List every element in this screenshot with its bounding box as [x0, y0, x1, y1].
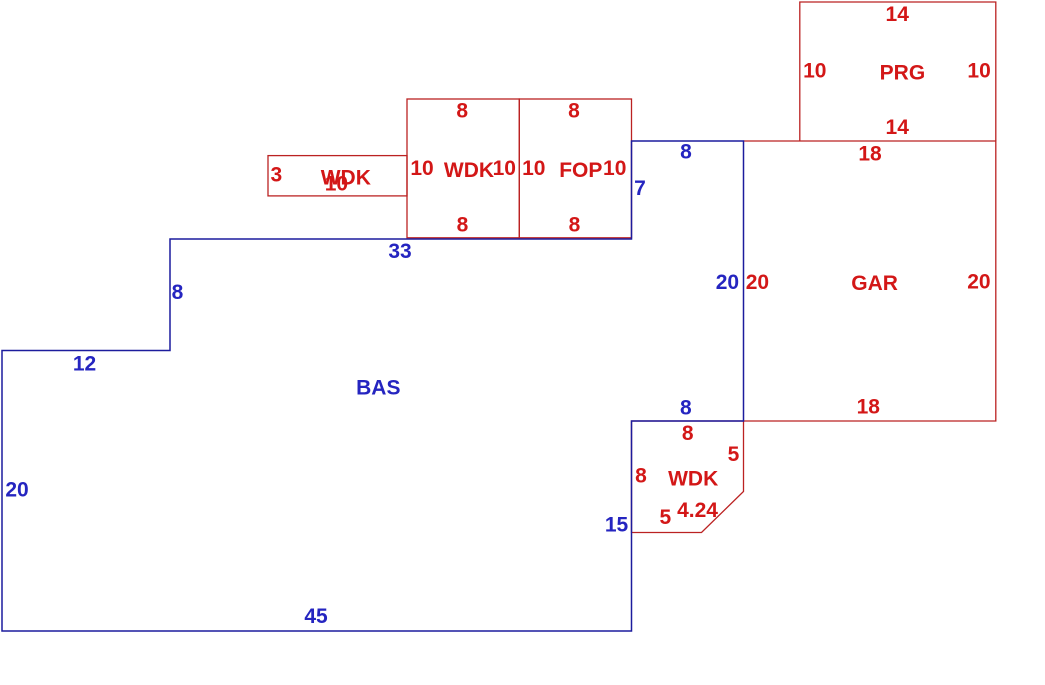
svg-text:8: 8 — [456, 99, 468, 122]
svg-text:BAS: BAS — [356, 377, 400, 400]
svg-text:WDK: WDK — [668, 468, 718, 491]
svg-text:14: 14 — [886, 116, 910, 139]
FOP porch outline — [519, 99, 631, 238]
svg-text:10: 10 — [493, 157, 516, 180]
svg-text:10: 10 — [803, 60, 826, 83]
svg-text:10: 10 — [603, 157, 626, 180]
svg-text:8: 8 — [568, 99, 580, 122]
svg-text:15: 15 — [605, 513, 629, 536]
svg-text:8: 8 — [635, 465, 647, 488]
svg-text:5: 5 — [728, 443, 740, 466]
svg-text:3: 3 — [270, 164, 282, 187]
svg-text:18: 18 — [857, 395, 881, 418]
svg-text:8: 8 — [680, 397, 692, 420]
svg-text:10: 10 — [410, 157, 433, 180]
WDK middle deck outline — [407, 99, 519, 238]
svg-text:14: 14 — [886, 3, 910, 26]
svg-text:FOP: FOP — [559, 159, 602, 182]
svg-text:8: 8 — [680, 141, 692, 164]
WDK bottom deck outline — [632, 421, 744, 533]
svg-text:WDK: WDK — [444, 159, 494, 182]
svg-text:PRG: PRG — [880, 62, 926, 85]
svg-text:8: 8 — [457, 214, 469, 237]
svg-text:10: 10 — [967, 60, 990, 83]
svg-text:GAR: GAR — [851, 272, 898, 295]
svg-text:20: 20 — [746, 271, 769, 294]
svg-text:20: 20 — [967, 271, 990, 294]
svg-text:4.24: 4.24 — [677, 499, 718, 522]
svg-text:7: 7 — [634, 177, 646, 200]
svg-text:8: 8 — [172, 281, 184, 304]
svg-text:12: 12 — [73, 353, 96, 376]
svg-text:10: 10 — [325, 173, 348, 196]
svg-text:5: 5 — [659, 506, 671, 529]
svg-text:20: 20 — [716, 271, 739, 294]
GAR garage outline — [744, 141, 996, 421]
svg-text:10: 10 — [522, 157, 545, 180]
svg-text:18: 18 — [858, 143, 882, 166]
BAS basement outline — [2, 141, 744, 631]
svg-text:8: 8 — [682, 422, 694, 445]
PRG garage outline — [800, 2, 996, 141]
svg-text:8: 8 — [569, 214, 581, 237]
WDK small deck outline — [268, 156, 407, 196]
svg-text:45: 45 — [304, 605, 328, 628]
svg-text:20: 20 — [5, 479, 28, 502]
svg-text:33: 33 — [388, 240, 411, 263]
